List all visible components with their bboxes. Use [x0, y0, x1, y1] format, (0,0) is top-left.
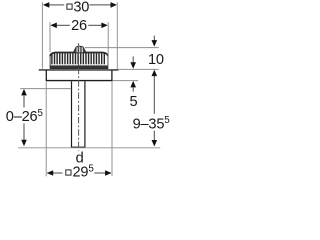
roof line right — [119, 68, 159, 70]
dimension line 30 — [49, 4, 64, 6]
flange plate — [39, 69, 119, 70]
dimension 10 arrow — [153, 36, 155, 42]
dimension line 29.5 — [47, 172, 62, 174]
label square 30 — [67, 4, 72, 9]
svg-text:26: 26 — [71, 18, 87, 34]
collar bottom — [46, 80, 113, 82]
svg-text:5: 5 — [129, 94, 137, 110]
insulation line left — [20, 88, 71, 90]
dimension 9-35.5 line — [152, 70, 158, 77]
hidden sleeve edge left — [45, 81, 47, 176]
pipe left wall — [71, 81, 73, 147]
collar-bottom extension right — [113, 80, 139, 82]
extension line dim26 right — [107, 22, 109, 67]
pipe bottom — [71, 146, 86, 148]
dimension 5 arrows — [132, 56, 134, 63]
extension line dim30 right — [116, 2, 118, 69]
leaf guard body — [50, 53, 108, 69]
extension line dim30 left — [41, 2, 43, 69]
leaf guard base band — [50, 65, 108, 68]
bottom reference line — [18, 147, 160, 149]
leaf guard ribs — [52, 53, 104, 64]
label square 29.5 — [66, 170, 71, 175]
hidden sleeve edge right — [111, 81, 113, 176]
dimension line 26 — [57, 24, 70, 26]
svg-text:10: 10 — [148, 52, 164, 68]
guard-top reference line right — [85, 47, 159, 49]
pipe right wall — [84, 81, 86, 147]
leaf guard top rim — [50, 53, 108, 57]
extension line dim26 left — [49, 22, 51, 52]
svg-text:30: 30 — [73, 0, 89, 15]
centerline — [78, 43, 80, 151]
leaf guard top cap — [73, 46, 86, 52]
dimension 0-26.5 line — [21, 89, 27, 96]
collar left wall — [45, 71, 47, 81]
collar right wall — [111, 71, 113, 81]
